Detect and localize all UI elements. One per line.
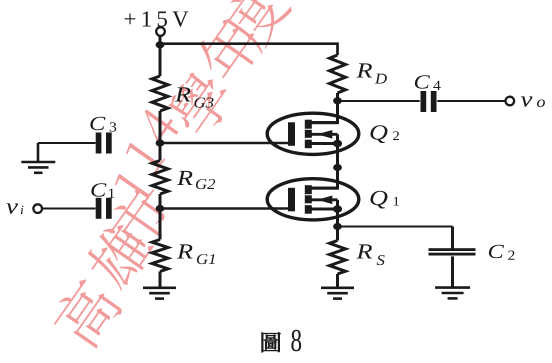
node interstage: [333, 164, 342, 171]
wire C4 to output: [437, 100, 505, 102]
label RD: [356, 63, 372, 77]
watermark char 年: [190, 11, 267, 88]
label vo: [521, 96, 533, 106]
label C1: [91, 183, 106, 196]
wire Q2 source to Q1 drain: [336, 150, 339, 189]
wire supply to rail: [159, 36, 162, 76]
watermark digit 1: [113, 168, 155, 205]
caption figure 8: [262, 332, 281, 352]
label Q2: [370, 125, 387, 143]
label RG3: [175, 87, 191, 101]
watermark digit 1: [124, 137, 166, 174]
node drain output: [333, 97, 342, 104]
input terminal: [33, 204, 42, 213]
resistor RG2: [152, 161, 168, 195]
node supply junction: [156, 41, 165, 48]
wire RS to ground: [336, 274, 339, 288]
label C2: [489, 245, 504, 258]
wire Q1 source down: [336, 215, 339, 241]
wire RG2 to node: [159, 194, 162, 240]
ground C2: [435, 286, 470, 289]
label Q1: [370, 191, 387, 209]
caption numeral 8: [291, 330, 301, 352]
wire C2 drop: [451, 227, 454, 249]
resistor RG3: [152, 76, 168, 111]
wire RG3 to node: [159, 111, 162, 161]
node C1 gate junction: [156, 205, 165, 212]
label RG2: [177, 171, 193, 185]
watermark char 度: [216, 0, 294, 54]
+15V supply label: [125, 14, 136, 25]
capacitor C2: [429, 248, 476, 251]
watermark char 雄: [81, 217, 158, 294]
Q1 drain corner: [311, 168, 338, 189]
capacitor C3: [96, 133, 102, 154]
capacitor C1: [96, 198, 102, 219]
label C4: [415, 75, 430, 88]
transistor Q2: [267, 113, 359, 154]
label RG1: [177, 244, 193, 258]
watermark char 高: [47, 274, 126, 352]
wire output to C4: [338, 100, 420, 102]
watermark char 市: [101, 183, 177, 259]
label vi: [6, 203, 18, 213]
wire gate Q1: [160, 207, 289, 209]
watermark char 學: [162, 66, 238, 142]
wire C3 left: [38, 142, 96, 144]
output terminal: [506, 97, 515, 106]
wire gate Q2: [160, 142, 289, 144]
wire source to C2: [338, 226, 453, 228]
ground RG1: [143, 286, 176, 289]
resistor RS: [330, 241, 346, 275]
watermark digit 4: [135, 104, 182, 148]
ground C3: [21, 161, 55, 164]
Q2 drain corner: [311, 99, 338, 123]
label RS: [356, 244, 372, 258]
ground RS: [321, 286, 354, 289]
resistor RG1: [152, 240, 168, 272]
supply terminal: [156, 27, 165, 36]
label C3: [90, 117, 105, 130]
transistor Q1: [267, 179, 359, 220]
node source bypass: [333, 223, 342, 230]
wire top rail to RD branch: [160, 44, 338, 55]
wire C1 to input: [42, 208, 96, 210]
wire RD to drain node: [336, 93, 339, 123]
wire C2 to ground: [451, 256, 454, 287]
node C3 gate junction: [156, 139, 165, 146]
capacitor C4: [421, 91, 427, 112]
wire RG1 to ground: [159, 272, 162, 289]
wire C3 ground drop: [37, 143, 40, 162]
resistor RD: [330, 55, 346, 93]
